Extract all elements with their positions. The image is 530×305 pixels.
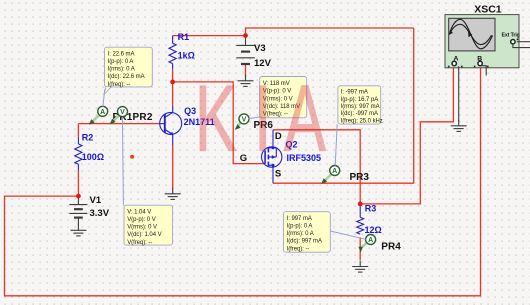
svg-text:G: G — [240, 153, 247, 164]
svg-text:PR3: PR3 — [350, 172, 370, 183]
leader line to PR2 box — [122, 117, 123, 205]
wire: Q3 base row — [78, 123, 160, 125]
leader line to PR1 box — [103, 89, 105, 107]
svg-text:I(rms): 0 A: I(rms): 0 A — [108, 67, 135, 73]
svg-text:I(dc): 997 mA: I(dc): 997 mA — [287, 239, 322, 245]
svg-text:I(freq): --: I(freq): -- — [108, 82, 131, 88]
svg-text:I(dc): -997 mA: I(dc): -997 mA — [341, 111, 378, 117]
leader line to PR3 box — [335, 124, 337, 166]
svg-text:3.3V: 3.3V — [90, 208, 110, 219]
wire: R1 top to V3 junction — [173, 35, 246, 37]
probe PR4 arrow — [359, 243, 367, 253]
wire: V3 junction up and right to top rail corner — [246, 28, 414, 36]
resistor R1 — [169, 32, 195, 82]
probe PR6 arrow — [235, 123, 241, 130]
junction node at R1 bottom — [170, 80, 175, 85]
transistor Q3 — [160, 106, 182, 146]
junction node at V3 plus — [243, 33, 248, 38]
label Q2 IRF5305 — [286, 140, 322, 164]
svg-text:V1: V1 — [90, 195, 102, 206]
wire: R1 bottom junction to gate of Q2 — [173, 82, 264, 164]
wire: base corner down to R2 top — [77, 124, 79, 138]
svg-text:V(rms): 0 V: V(rms): 0 V — [127, 225, 157, 231]
label Q3 2N1711 — [184, 106, 215, 127]
svg-text:I: 997 mA: I: 997 mA — [287, 216, 312, 222]
wire: scope A minus to ground — [458, 66, 460, 121]
wire: Q3 emitter to ground — [172, 146, 174, 190]
measurement box PR3 — [338, 86, 383, 125]
svg-text:PR4: PR4 — [381, 242, 401, 253]
wire: scope B minus stub — [482, 66, 487, 76]
ground below R3 — [352, 261, 368, 273]
svg-text:I(dc): 22.6 mA: I(dc): 22.6 mA — [108, 74, 145, 80]
svg-text:S: S — [275, 168, 281, 179]
measurement box PR2 — [124, 205, 173, 246]
svg-text:V(p-p): 0 V: V(p-p): 0 V — [127, 217, 156, 223]
svg-text:V3: V3 — [254, 43, 266, 54]
svg-text:I(rms): 0 A: I(rms): 0 A — [287, 231, 314, 237]
ground at scope — [451, 120, 467, 132]
svg-text:I(p-p): 16.7 pA: I(p-p): 16.7 pA — [341, 97, 379, 103]
battery V1 — [69, 196, 87, 225]
probe PR3 — [330, 166, 340, 176]
measurement box PR1 — [104, 47, 152, 94]
svg-text:D: D — [275, 131, 282, 142]
svg-text:R3: R3 — [365, 204, 377, 214]
leader line to PR6 box — [249, 117, 260, 119]
wire: Q2 source to right rail — [273, 182, 414, 184]
resistor R2 — [75, 133, 104, 171]
probe PR4 — [366, 235, 376, 245]
svg-text:R2: R2 — [82, 133, 94, 143]
measurement box PR6 — [260, 77, 307, 118]
wire: ext trig stubs — [517, 41, 530, 43]
svg-text:I: I — [254, 66, 271, 171]
svg-text:I(p-p): 0 A: I(p-p): 0 A — [108, 59, 134, 65]
svg-text:Ext Trig: Ext Trig — [502, 32, 520, 38]
resistor R3 — [357, 204, 382, 236]
ground at Q3 emitter — [165, 188, 181, 200]
ground below V1 — [70, 224, 86, 236]
junction node at V1 plus — [76, 194, 81, 199]
oscilloscope XSC1 — [445, 15, 520, 68]
svg-text:I: 22.6 mA: I: 22.6 mA — [108, 51, 135, 57]
svg-text:V(freq): --: V(freq): -- — [127, 240, 152, 246]
label V1 3.3V — [90, 195, 110, 219]
svg-text:V(dc): 1.04 V: V(dc): 1.04 V — [127, 232, 161, 238]
wire: R3 junction to scope A — [360, 68, 453, 204]
wire: V3 minus to ground — [245, 65, 247, 77]
svg-text:XSC1: XSC1 — [474, 4, 502, 16]
svg-text:R1: R1 — [178, 32, 190, 42]
wire: R3 bottom to ground — [359, 237, 361, 260]
svg-text:100Ω: 100Ω — [82, 152, 104, 162]
wire: right rail down to source row — [413, 28, 415, 183]
probe PR1 — [98, 106, 108, 116]
svg-text:1kΩ: 1kΩ — [178, 51, 195, 61]
svg-text:I(freq): --: I(freq): -- — [287, 246, 310, 252]
measurement box PR4 — [283, 212, 330, 253]
svg-text:K: K — [195, 66, 237, 171]
svg-text:V: 1.04 V: V: 1.04 V — [127, 209, 151, 215]
stray net dot — [130, 155, 134, 159]
battery V3 — [236, 36, 254, 66]
probe PR2 arrow — [110, 115, 119, 124]
junction node at R3 top — [358, 202, 363, 207]
svg-text:A: A — [284, 66, 327, 171]
leader line to PR4 box — [330, 231, 365, 239]
wire: V1 junction loop around bottom to scope B — [5, 68, 481, 296]
probe PR2 — [118, 107, 128, 117]
probe PR1 arrow — [89, 115, 99, 125]
svg-text:I(rms): 997 mA: I(rms): 997 mA — [341, 104, 380, 110]
ground below V3 — [238, 75, 254, 87]
watermark KIA — [195, 66, 326, 171]
svg-text:I: -997 mA: I: -997 mA — [341, 90, 368, 96]
probe PR6 — [239, 114, 249, 124]
svg-text:12Ω: 12Ω — [365, 225, 382, 235]
svg-text:I(freq): 25.0 kHz: I(freq): 25.0 kHz — [341, 118, 383, 124]
MOSFET Q2 — [262, 130, 282, 183]
label V3 12V — [254, 43, 272, 69]
wire: R2 bottom to V1 junction — [77, 171, 79, 196]
probe PR3 arrow — [321, 175, 331, 184]
svg-text:I(p-p): 0 A: I(p-p): 0 A — [287, 224, 313, 230]
wire: junction down to Q3 collector — [172, 82, 174, 106]
wire: Q2 drain to R3 top junction — [273, 130, 360, 204]
